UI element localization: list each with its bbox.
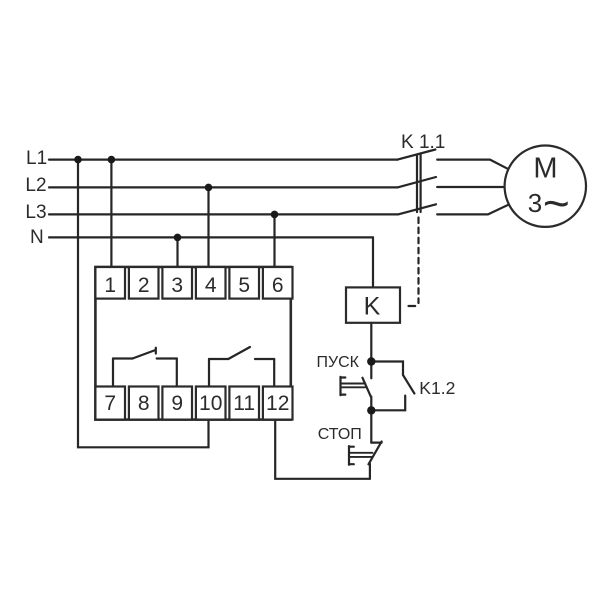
svg-text:4: 4	[205, 274, 217, 297]
svg-text:3: 3	[171, 274, 183, 297]
svg-text:N: N	[30, 227, 44, 248]
svg-text:7: 7	[104, 392, 116, 415]
svg-text:K: K	[364, 293, 381, 321]
svg-text:K1.2: K1.2	[419, 378, 455, 398]
svg-text:L3: L3	[25, 202, 46, 223]
svg-text:2: 2	[138, 274, 150, 297]
svg-text:СТОП: СТОП	[318, 426, 362, 443]
svg-text:10: 10	[199, 392, 222, 415]
svg-text:5: 5	[238, 274, 250, 297]
svg-text:6: 6	[272, 274, 284, 297]
svg-text:8: 8	[138, 392, 150, 415]
svg-text:L2: L2	[25, 175, 46, 196]
svg-text:11: 11	[233, 392, 255, 415]
svg-text:L1: L1	[26, 148, 47, 169]
svg-text:1: 1	[104, 274, 116, 297]
svg-text:ПУСК: ПУСК	[316, 354, 359, 371]
svg-text:12: 12	[266, 392, 289, 415]
svg-text:9: 9	[171, 392, 183, 415]
svg-text:~: ~	[543, 177, 570, 229]
svg-text:3: 3	[528, 188, 542, 218]
svg-text:K 1.1: K 1.1	[401, 132, 445, 153]
